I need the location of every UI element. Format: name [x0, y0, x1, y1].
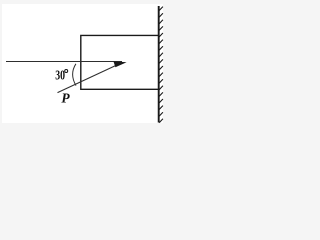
angle arc — [73, 64, 76, 86]
wall hatching ticks — [159, 7, 163, 123]
force P arrow shaft (diagonal line) — [58, 64, 120, 93]
degree symbol of 30 — [65, 70, 68, 73]
block B1 (rectangle against wall) — [81, 35, 159, 89]
force P arrowhead — [113, 61, 126, 67]
wall W1 (vertical line) — [158, 6, 160, 123]
horizontal reference line — [6, 61, 122, 63]
svg-text:30: 30 — [55, 67, 65, 83]
figure background — [2, 4, 163, 123]
svg-text:P: P — [61, 90, 70, 105]
